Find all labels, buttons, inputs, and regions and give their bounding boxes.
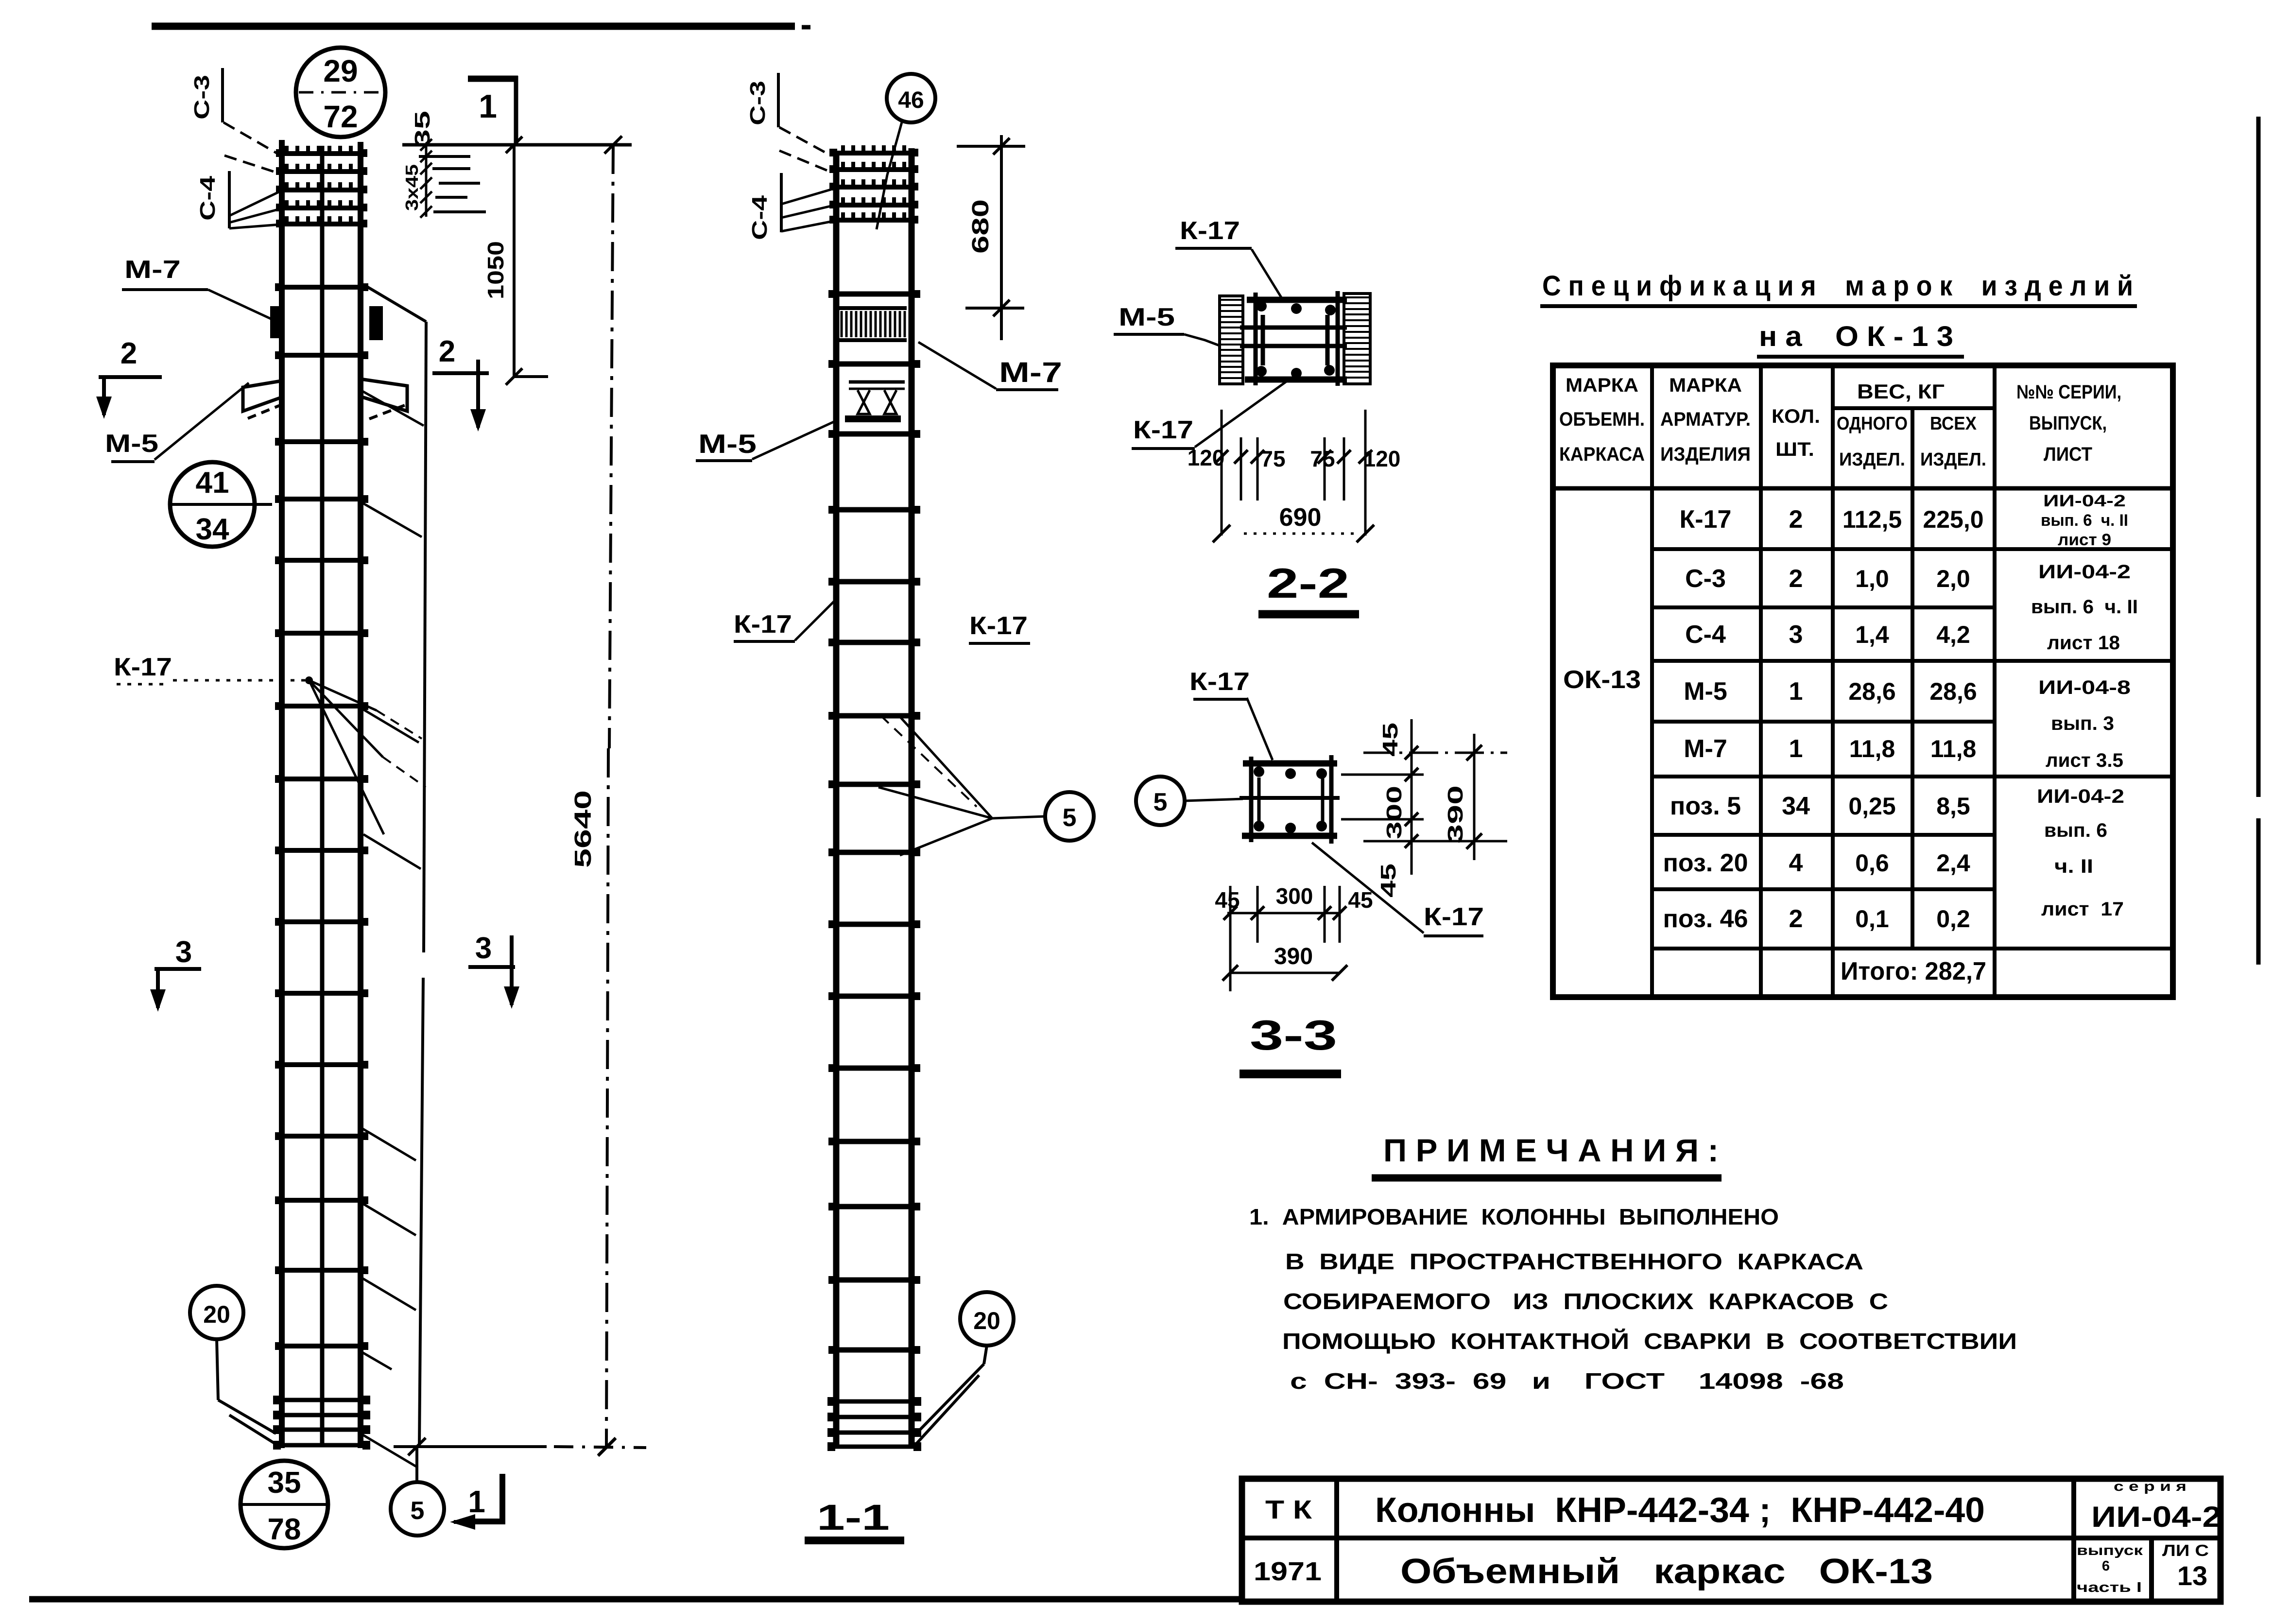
section 3-3 cage K-17 bottom bar [1242, 833, 1337, 839]
callout circle 20 left column with bracket leader [190, 1286, 243, 1339]
section 2-2 left plate M-5 (hatched) [1220, 296, 1243, 384]
svg-text:3: 3 [1789, 621, 1803, 649]
svg-text:11,8: 11,8 [1930, 735, 1977, 762]
callout circle 20 column 1-1 with bracket leader [960, 1292, 1014, 1346]
embedded part M-5 left column (side trapezoid plates) [243, 380, 284, 411]
svg-text:2-2: 2-2 [1267, 560, 1349, 607]
svg-text:0,1: 0,1 [1855, 905, 1889, 933]
spec table row lines [1652, 547, 2173, 551]
svg-text:АРМАТУР.: АРМАТУР. [1660, 409, 1751, 430]
svg-text:120: 120 [1188, 445, 1225, 470]
svg-text:М-5: М-5 [698, 429, 757, 459]
svg-text:ШТ.: ШТ. [1775, 439, 1814, 460]
svg-text:ВЫПУСК,: ВЫПУСК, [2029, 413, 2107, 434]
svg-text:М-7: М-7 [999, 357, 1062, 388]
callout circle 29/72 top of left column [296, 48, 385, 137]
svg-text:0,6: 0,6 [1855, 849, 1889, 877]
weld tick marks between cage and projection line [362, 391, 424, 426]
column 1-1 top mesh rows with studs [832, 151, 916, 155]
svg-text:1-1: 1-1 [817, 1497, 890, 1538]
svg-text:5: 5 [1154, 788, 1168, 816]
svg-text:ИЗДЕЛИЯ: ИЗДЕЛИЯ [1660, 444, 1751, 465]
svg-text:20: 20 [973, 1307, 1000, 1334]
svg-text:№№ СЕРИИ,: №№ СЕРИИ, [2016, 381, 2121, 403]
section 2-2 dimension chain 120/75/75/120 [1221, 410, 1223, 536]
svg-text:МАРКА: МАРКА [1669, 375, 1742, 396]
svg-text:2,4: 2,4 [1936, 849, 1970, 877]
section 2-2 rebar dots [1256, 301, 1267, 311]
svg-text:75: 75 [1310, 446, 1335, 471]
svg-text:поз. 5: поз. 5 [1670, 792, 1741, 820]
section 3-3 dimension 390 [1230, 972, 1340, 974]
svg-text:ИИ-04-2: ИИ-04-2 [2037, 786, 2124, 807]
svg-text:ИИ-04-8: ИИ-04-8 [2038, 677, 2131, 698]
section 3-3 bottom dimension chain 45/300/45 [1229, 886, 1232, 991]
svg-text:1: 1 [1789, 677, 1803, 706]
svg-text:С п е ц и ф и к а ц и я м а: С п е ц и ф и к а ц и я м а р о к и з д … [1542, 270, 2133, 302]
svg-text:300: 300 [1382, 786, 1406, 839]
svg-text:С-4: С-4 [196, 175, 220, 221]
svg-text:КОЛ.: КОЛ. [1772, 406, 1820, 427]
svg-text:72: 72 [323, 99, 358, 134]
svg-text:лист 18: лист 18 [2047, 632, 2120, 654]
svg-text:ч. II: ч. II [2054, 856, 2093, 877]
svg-text:К-17: К-17 [734, 610, 792, 639]
section 3-3 side bars [1257, 777, 1261, 829]
svg-text:ЛИСТ: ЛИСТ [2044, 444, 2092, 465]
svg-text:300: 300 [1276, 883, 1313, 909]
svg-text:13: 13 [2177, 1560, 2207, 1591]
svg-text:К-17: К-17 [114, 653, 172, 681]
svg-text:1. АРМИРОВАНИЕ КОЛОННЫ ВЫПО: 1. АРМИРОВАНИЕ КОЛОННЫ ВЫПОЛНЕНО [1249, 1204, 1779, 1229]
sheet right border line [2256, 117, 2261, 797]
svg-text:2: 2 [1789, 565, 1803, 593]
svg-text:К-17: К-17 [1424, 903, 1484, 931]
svg-text:С-3: С-3 [1685, 565, 1726, 593]
left column bottom dense ties (poz.20 zone) [275, 1398, 368, 1402]
dimension 1050 left column [513, 145, 516, 377]
overall dimension 5640 (chain line) [609, 145, 613, 748]
svg-text:С-4: С-4 [1685, 621, 1726, 649]
column 1-1 left longitudinal bar [833, 151, 840, 1447]
svg-text:Объемный каркас ОК-13: Объемный каркас ОК-13 [1400, 1552, 1933, 1591]
svg-text:8,5: 8,5 [1936, 793, 1970, 820]
svg-text:1,0: 1,0 [1855, 565, 1889, 592]
embedded part M-7 in column 1-1 (hatched block) [838, 306, 907, 310]
left column longitudinal bar (front-left) [279, 140, 285, 1448]
svg-text:45: 45 [1215, 887, 1240, 913]
section 2-2 cage left vertical bar [1254, 293, 1258, 385]
svg-text:ОБЪЕМН.: ОБЪЕМН. [1559, 409, 1645, 430]
svg-text:28,6: 28,6 [1848, 678, 1895, 705]
callout circle 5 bottom with section mark 1 [391, 1482, 444, 1536]
callout circle 5 section 3-3 with leader [1136, 777, 1185, 825]
title block horizontal divider [1242, 1536, 2221, 1540]
section 2-2 cage K-17 top bar [1247, 297, 1347, 303]
svg-text:1: 1 [1789, 735, 1803, 763]
svg-text:225,0: 225,0 [1923, 506, 1983, 533]
svg-text:выпуск: выпуск [2077, 1543, 2143, 1558]
svg-text:2: 2 [439, 335, 455, 368]
sheet top border line [152, 23, 795, 30]
svg-text:С-4: С-4 [748, 195, 772, 240]
svg-text:лист 3.5: лист 3.5 [2046, 750, 2123, 771]
svg-text:М-7: М-7 [1684, 735, 1727, 763]
svg-text:45: 45 [1377, 864, 1400, 898]
section 2-2 cage right vertical bar [1336, 291, 1340, 386]
svg-text:Итого: 282,7: Итого: 282,7 [1841, 957, 1986, 985]
column 1-1 tie bars [831, 292, 917, 297]
svg-text:М-5: М-5 [105, 430, 158, 458]
svg-text:75: 75 [1260, 446, 1285, 471]
svg-text:5: 5 [411, 1497, 425, 1525]
left column longitudinal bar (middle/back) [320, 146, 325, 1447]
svg-text:н а О К - 1 3: н а О К - 1 3 [1759, 321, 1953, 352]
svg-text:34: 34 [196, 513, 229, 546]
svg-text:0,25: 0,25 [1848, 793, 1895, 820]
svg-text:К-17: К-17 [969, 612, 1028, 640]
svg-text:ОК-13: ОК-13 [1563, 666, 1641, 694]
title block vertical dividers [1334, 1479, 1339, 1602]
title block outer frame [1242, 1479, 2221, 1602]
section 3-3 cage K-17 top bar [1243, 760, 1337, 767]
svg-text:390: 390 [1444, 785, 1467, 844]
svg-text:часть I: часть I [2077, 1580, 2142, 1595]
svg-text:690: 690 [1279, 503, 1322, 532]
left column tie bars [278, 285, 365, 290]
svg-text:ИИ-04-2: ИИ-04-2 [2043, 492, 2126, 510]
svg-text:0,2: 0,2 [1936, 905, 1970, 933]
svg-text:2: 2 [1789, 905, 1803, 933]
svg-text:М-5: М-5 [1119, 303, 1175, 331]
svg-text:45: 45 [1378, 723, 1402, 757]
svg-text:4: 4 [1789, 849, 1803, 877]
svg-text:4,2: 4,2 [1936, 621, 1970, 648]
svg-text:ПОМОЩЬЮ КОНТАКТНОЙ СВАРКИ В: ПОМОЩЬЮ КОНТАКТНОЙ СВАРКИ В СООТВЕТСТВИИ [1282, 1329, 2017, 1354]
svg-text:3: 3 [475, 932, 492, 965]
svg-text:1050: 1050 [483, 241, 508, 299]
svg-text:лист 9: лист 9 [2058, 531, 2111, 549]
section 3-3 cage left vertical bar [1249, 757, 1254, 842]
svg-text:с е р и я: с е р и я [2114, 1479, 2187, 1494]
svg-text:11,8: 11,8 [1849, 735, 1895, 762]
svg-text:29: 29 [323, 53, 358, 88]
svg-text:112,5: 112,5 [1842, 506, 1902, 533]
svg-text:3: 3 [175, 935, 192, 969]
callout circle 46 with leader [887, 74, 935, 122]
dimension 680 column 1-1 [957, 145, 1025, 148]
section 3-3 cage right vertical bar [1329, 755, 1334, 844]
section 3-3 middle bar [1240, 796, 1340, 800]
spec table column lines [1650, 365, 1654, 997]
svg-text:28,6: 28,6 [1929, 678, 1977, 705]
svg-text:вып. 6: вып. 6 [2044, 820, 2107, 841]
spec table outer frame [1553, 365, 2173, 997]
svg-text:поз. 46: поз. 46 [1663, 905, 1748, 933]
svg-text:34: 34 [1782, 792, 1810, 820]
embedded part M-5 in column 1-1 (I-beam with cross braces) [849, 380, 905, 384]
section 3-3 rebar dots [1254, 766, 1264, 777]
svg-text:поз. 20: поз. 20 [1663, 849, 1748, 877]
left column projection line of finished column [365, 286, 426, 322]
svg-text:3х45: 3х45 [402, 164, 422, 211]
svg-text:С-3: С-3 [746, 81, 770, 125]
svg-text:КАРКАСА: КАРКАСА [1559, 444, 1645, 465]
svg-text:1: 1 [479, 88, 497, 125]
column 1-1 bottom dense ties [829, 1399, 919, 1404]
svg-text:К-17: К-17 [1180, 217, 1240, 245]
embedded plate M-7 left column (two black side plates) [270, 306, 284, 338]
svg-text:ИЗДЕЛ.: ИЗДЕЛ. [1839, 449, 1905, 470]
svg-text:5: 5 [1063, 804, 1077, 832]
callout circle 35/78 bottom left column [241, 1461, 328, 1548]
svg-text:2,0: 2,0 [1936, 565, 1970, 592]
callout circle 5 column 1-1 with fan leaders [1045, 792, 1094, 841]
svg-text:ЛИ С: ЛИ С [2162, 1541, 2209, 1559]
section 2-2 cage K-17 bottom bar [1245, 377, 1347, 383]
svg-text:120: 120 [1363, 446, 1401, 471]
svg-text:390: 390 [1274, 944, 1313, 969]
svg-text:1,4: 1,4 [1855, 621, 1889, 648]
svg-text:ИИ-04-2: ИИ-04-2 [2038, 561, 2131, 583]
section 3-3 right dimension chain 45/300/45 and 390 [1363, 752, 1507, 754]
svg-text:П Р И М Е Ч А Н И Я :: П Р И М Е Ч А Н И Я : [1383, 1132, 1719, 1168]
svg-text:К-17: К-17 [1189, 668, 1250, 696]
svg-text:М-7: М-7 [124, 256, 181, 284]
svg-text:ИИ-04-2: ИИ-04-2 [2091, 1501, 2221, 1533]
section 2-2 side longitudinal bars [1261, 315, 1265, 365]
svg-text:41: 41 [196, 466, 229, 500]
svg-text:2: 2 [121, 337, 137, 370]
svg-text:35: 35 [268, 1466, 301, 1500]
svg-text:вып. 6 ч. II: вып. 6 ч. II [2041, 511, 2128, 530]
svg-text:5640: 5640 [570, 790, 596, 868]
svg-text:Колонны КНР-442-34 ; КНР-442: Колонны КНР-442-34 ; КНР-442-40 [1375, 1491, 1985, 1530]
svg-text:лист 17: лист 17 [2041, 898, 2124, 920]
svg-text:6: 6 [2102, 1558, 2110, 1574]
section 2-2 M-5 through bars [1240, 326, 1347, 330]
svg-text:680: 680 [968, 199, 994, 254]
svg-text:С-3: С-3 [190, 75, 214, 120]
svg-text:с СН- 393- 69 и ГОСТ: с СН- 393- 69 и ГОСТ 14098 -68 [1290, 1368, 1844, 1394]
svg-text:45: 45 [1348, 887, 1373, 913]
svg-text:вып. 6 ч. II: вып. 6 ч. II [2031, 596, 2138, 618]
bottom reference line under left column [394, 1445, 547, 1448]
column 1-1 right longitudinal bar [909, 148, 915, 1447]
svg-text:вып. 3: вып. 3 [2051, 713, 2114, 734]
sheet bottom border line [29, 1596, 1242, 1603]
svg-text:1: 1 [468, 1484, 485, 1519]
svg-text:1971: 1971 [1254, 1557, 1322, 1586]
callout circle 41/34 left column [170, 462, 255, 547]
left column longitudinal bar (front-right) [358, 142, 363, 1448]
svg-text:ОДНОГО: ОДНОГО [1837, 414, 1908, 434]
svg-text:Т К: Т К [1265, 1495, 1312, 1524]
svg-text:78: 78 [268, 1513, 301, 1546]
svg-text:СОБИРАЕМОГО ИЗ ПЛОСКИХ КАР: СОБИРАЕМОГО ИЗ ПЛОСКИХ КАРКАСОВ С [1283, 1289, 1888, 1314]
left column top mesh C-3/C-4 rows with studs [279, 151, 364, 156]
svg-text:К-17: К-17 [1680, 505, 1732, 534]
svg-text:ВЕС, КГ: ВЕС, КГ [1857, 380, 1945, 403]
svg-text:3-3: 3-3 [1250, 1012, 1337, 1059]
section 2-2 right plate M-5 (hatched) [1344, 294, 1370, 384]
svg-text:2: 2 [1789, 505, 1803, 534]
svg-text:В ВИДЕ ПРОСТРАНСТВЕННОГО КА: В ВИДЕ ПРОСТРАНСТВЕННОГО КАРКАСА [1285, 1249, 1863, 1274]
spec table header lines [1553, 486, 2173, 491]
svg-text:46: 46 [898, 87, 924, 113]
svg-text:МАРКА: МАРКА [1566, 375, 1638, 396]
svg-text:ВСЕХ: ВСЕХ [1930, 414, 1977, 434]
svg-text:М-5: М-5 [1684, 677, 1727, 706]
svg-text:ИЗДЕЛ.: ИЗДЕЛ. [1920, 449, 1986, 470]
svg-text:35: 35 [411, 111, 434, 148]
svg-text:К-17: К-17 [1133, 416, 1193, 444]
svg-text:20: 20 [203, 1301, 230, 1328]
